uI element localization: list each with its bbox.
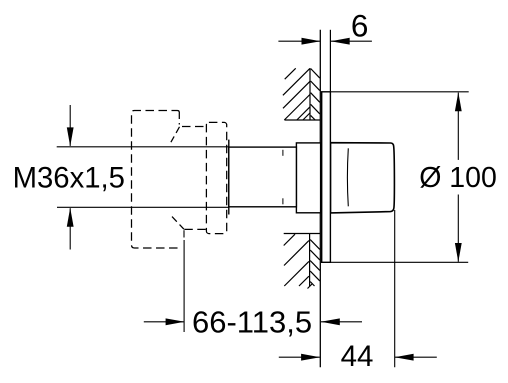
dimension line 66-113,5 (144, 318, 362, 325)
svg-text:6: 6 (351, 7, 369, 43)
extension line from valve body (66-113,5 left reference) (183, 240, 185, 332)
dashed cartridge sleeve rect (206, 122, 226, 233)
dimension line 44 (279, 354, 437, 361)
knob handle (331, 143, 395, 213)
dimension 6 arrows (278, 38, 372, 45)
knob face curve (346, 148, 349, 206)
dashed valve body main hex outline (132, 111, 180, 249)
svg-text:M36x1,5: M36x1,5 (13, 161, 125, 194)
wall hatch top block (283, 68, 320, 120)
thread relief tick top (282, 150, 284, 156)
dashed body right edge top (178, 112, 180, 125)
svg-text:Ø 100: Ø 100 (419, 162, 497, 194)
svg-text:66-113,5: 66-113,5 (192, 304, 312, 339)
escutcheon plate (322, 92, 331, 262)
dimension Ø100 extension lines (330, 92, 468, 262)
spindle sleeve through wall (296, 143, 320, 213)
dashed body bottom connector (184, 228, 206, 230)
wall face line (319, 30, 321, 367)
wall hatch bottom block (284, 234, 320, 289)
shaft flange edge (228, 140, 230, 215)
svg-text:44: 44 (341, 340, 374, 373)
dashed body top connector (182, 126, 206, 128)
dimension M36x1,5 lines (57, 105, 229, 250)
knob edge extension line down (394, 210, 396, 367)
escutcheon front face extension up (329, 30, 331, 92)
threaded shaft (229, 147, 297, 207)
dashed body bottom chamfer (172, 217, 184, 230)
thread relief tick bottom (282, 198, 284, 204)
dashed body top chamfer (171, 127, 180, 142)
